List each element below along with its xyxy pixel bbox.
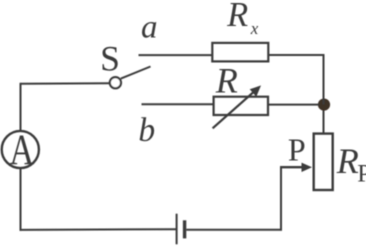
svg-text:A: A — [9, 126, 34, 174]
wire: top-right horizontal (Rx to right corner) — [268, 54, 324, 56]
switch S blade — [121, 67, 151, 79]
wire: right vertical junction up to top corner — [323, 54, 325, 105]
wire: top-left horizontal (switch to left column) — [21, 82, 110, 85]
svg-text:R: R — [336, 141, 359, 181]
svg-text:R: R — [215, 61, 238, 101]
svg-text:S: S — [100, 38, 120, 78]
wire: left vertical bottom segment — [20, 168, 22, 231]
wire: right vertical pot top to junction — [323, 105, 325, 134]
wire: bottom horizontal battery to riser — [186, 229, 282, 231]
svg-text:b: b — [138, 112, 155, 149]
svg-text:R: R — [226, 0, 248, 34]
wire: left vertical top segment — [20, 83, 22, 131]
switch S pivot circle — [110, 77, 121, 88]
wire: riser up from bottom wire to wiper level — [280, 166, 282, 230]
junction node (solder dot) — [318, 99, 330, 111]
svg-text:a: a — [141, 10, 158, 46]
wire: contact b branch (left of rheostat) — [142, 103, 214, 105]
potentiometer R_P box — [314, 134, 333, 190]
rheostat arrow shaft — [213, 91, 255, 128]
svg-text:P: P — [357, 161, 366, 188]
wiper lead wire — [280, 166, 304, 168]
wire: bottom horizontal left of battery — [20, 228, 176, 231]
rheostat R box — [214, 97, 268, 115]
ammeter A — [2, 126, 39, 174]
wiper arrowhead P — [302, 163, 313, 172]
svg-text:P: P — [288, 132, 306, 168]
wire: rheostat to junction — [268, 104, 319, 106]
svg-text:x: x — [250, 19, 259, 38]
wire: contact a branch — [139, 54, 213, 56]
rheostat arrowhead — [250, 85, 261, 96]
battery: short thick plate — [183, 220, 186, 238]
resistor R_x box — [212, 43, 268, 62]
battery: long thin plate — [176, 214, 178, 245]
